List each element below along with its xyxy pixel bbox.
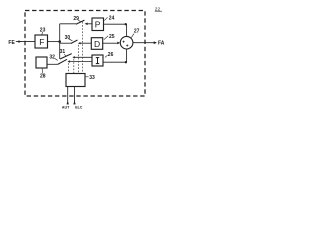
label 26 bbox=[105, 55, 108, 57]
box F (filter) bbox=[35, 35, 48, 48]
svg-text:AUT: AUT bbox=[62, 106, 70, 110]
wire dashed control to switch 30 bbox=[78, 45, 80, 74]
wire dashed control to switch 29 bbox=[82, 22, 84, 74]
label 24 bbox=[104, 17, 107, 20]
label 22 bbox=[155, 7, 162, 13]
label 25 bbox=[104, 36, 108, 40]
dashed system boundary box 22 bbox=[25, 11, 145, 97]
svg-text:FE: FE bbox=[8, 40, 15, 46]
switch 32 bbox=[58, 59, 92, 64]
svg-text:22: 22 bbox=[155, 7, 161, 13]
svg-text:F: F bbox=[39, 37, 44, 47]
svg-text:32: 32 bbox=[49, 54, 55, 60]
svg-text:30: 30 bbox=[65, 35, 71, 41]
svg-text:29: 29 bbox=[73, 16, 79, 22]
box D derivative bbox=[91, 38, 102, 50]
label 27 bbox=[131, 34, 134, 38]
label 33 bbox=[86, 76, 89, 78]
svg-text:P: P bbox=[95, 20, 101, 30]
wire dashed control to switch 32 bbox=[68, 63, 70, 73]
svg-text:33: 33 bbox=[89, 75, 95, 81]
box P proportional bbox=[92, 18, 104, 31]
wire D output arrow into summer bbox=[103, 42, 118, 44]
svg-text:FA: FA bbox=[158, 41, 165, 47]
wire row D bbox=[60, 42, 71, 44]
wire I output to summer bbox=[103, 61, 127, 63]
wire ELC input bbox=[74, 87, 76, 105]
wire box28 output bbox=[47, 63, 58, 65]
switch 31 bbox=[60, 54, 92, 59]
box 28 setpoint unit bbox=[36, 57, 47, 68]
svg-text:26: 26 bbox=[108, 52, 114, 58]
summing junction 27 bbox=[120, 36, 133, 49]
svg-text:ELC: ELC bbox=[75, 106, 83, 110]
wire summer output FA bbox=[133, 42, 154, 44]
svg-text:D: D bbox=[94, 39, 100, 49]
svg-text:25: 25 bbox=[109, 34, 115, 40]
box I integrator bbox=[92, 55, 103, 66]
node junction bbox=[58, 40, 61, 43]
switch 29 bbox=[76, 20, 92, 25]
svg-text:27: 27 bbox=[134, 29, 140, 35]
wire F output bbox=[48, 41, 60, 43]
svg-text:28: 28 bbox=[40, 74, 46, 80]
wire distribution vertical bbox=[59, 24, 61, 59]
wire dashed control to switch 31 bbox=[73, 59, 75, 74]
wire row P bbox=[60, 23, 76, 25]
box 33 switch control unit bbox=[66, 74, 85, 87]
switch 30 bbox=[71, 40, 92, 44]
svg-text:24: 24 bbox=[109, 15, 115, 21]
wire AUT input bbox=[67, 87, 69, 105]
wire FE to box F bbox=[16, 41, 35, 43]
wire P output to summer bbox=[104, 23, 127, 25]
